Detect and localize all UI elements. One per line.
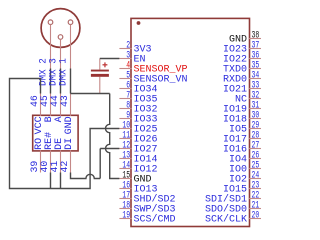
svg-text:SCK/CLK: SCK/CLK — [205, 214, 247, 226]
svg-text:19: 19 — [122, 211, 130, 222]
svg-text:20: 20 — [252, 211, 260, 222]
svg-text:43: 43 — [60, 95, 71, 107]
svg-text:DMX 1: DMX 1 — [59, 58, 70, 86]
svg-text:SCS/CMD: SCS/CMD — [134, 214, 176, 226]
svg-text:DI: DI — [64, 138, 75, 150]
svg-text:42: 42 — [60, 161, 71, 173]
svg-text:GND: GND — [64, 116, 75, 134]
